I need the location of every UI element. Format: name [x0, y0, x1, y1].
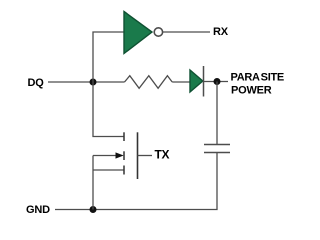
transistor Q1 body arrow — [116, 152, 124, 158]
wire gate to TX — [138, 155, 153, 157]
transistor Q1 drain tick — [123, 132, 125, 141]
wire bubble to RX — [163, 31, 210, 33]
wire DQ lead — [48, 81, 125, 83]
transistor Q1 body wire — [93, 155, 117, 157]
capacitor C1 bottom plate — [204, 152, 230, 154]
transistor Q1 body tick — [123, 151, 125, 160]
svg-text:PARASITE: PARASITE — [231, 71, 284, 83]
wire diode to parasite power — [204, 81, 229, 83]
wire resistor to diode — [172, 81, 190, 83]
capacitor C1 top plate — [204, 144, 230, 146]
resistor R1 — [125, 76, 173, 89]
svg-text:GND: GND — [26, 204, 50, 216]
svg-text:TX: TX — [155, 147, 170, 161]
op-amp inverter U1 — [124, 12, 152, 54]
diode cathode bar — [203, 66, 205, 97]
svg-text:POWER: POWER — [231, 84, 272, 96]
node parasite power junction — [214, 78, 221, 85]
transistor Q1 gate line — [137, 132, 139, 179]
transistor Q1: wire DQ junction to drain — [93, 82, 124, 137]
wire source/body down to ground — [92, 156, 94, 210]
wire junction down to capacitor — [216, 82, 218, 145]
transistor Q1 source wire — [93, 169, 124, 171]
inverter bubble — [154, 28, 162, 36]
node GND junction — [90, 206, 97, 213]
svg-text:DQ: DQ — [28, 77, 45, 89]
svg-text:RX: RX — [213, 26, 229, 38]
wire DQ to inverter input — [93, 32, 124, 82]
wire capacitor to ground rail — [55, 153, 217, 210]
transistor Q1 source tick — [123, 166, 125, 175]
node DQ junction — [90, 79, 97, 86]
diode D1 — [190, 70, 203, 92]
